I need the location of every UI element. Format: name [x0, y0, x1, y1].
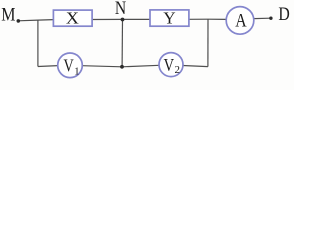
svg-text:A: A	[235, 11, 247, 31]
wire left branch vertical	[37, 20, 39, 66]
svg-text:D: D	[278, 4, 289, 25]
wire bottom junction to V2	[122, 65, 159, 67]
ammeter A	[226, 7, 254, 35]
box Y	[150, 10, 189, 26]
wire node N to Y	[123, 18, 151, 20]
node N junction dot	[121, 18, 125, 22]
node M terminal dot	[17, 19, 21, 23]
svg-text:M: M	[1, 6, 15, 26]
wire right branch vertical	[207, 19, 209, 66]
node D terminal dot	[269, 17, 272, 20]
wire node N vertical to bottom junction	[121, 19, 123, 66]
wire right junction to ammeter	[208, 18, 227, 20]
wire Y to right junction	[189, 18, 208, 20]
wire V2 to right corner	[183, 66, 208, 67]
svg-text:1: 1	[74, 66, 80, 78]
svg-text:V: V	[64, 56, 74, 76]
wire ammeter to D dot	[254, 17, 270, 19]
svg-text:Y: Y	[163, 8, 176, 27]
wire M dot to left junction	[18, 19, 38, 22]
svg-text:X: X	[66, 8, 80, 27]
svg-text:N: N	[115, 0, 126, 19]
wire left branch to V1	[38, 65, 58, 68]
box X	[53, 10, 92, 26]
svg-text:2: 2	[175, 64, 181, 76]
wire left junction to X	[38, 19, 54, 22]
svg-text:V: V	[164, 55, 174, 75]
voltmeter V1	[58, 53, 83, 78]
wire X to node N	[92, 18, 123, 20]
voltmeter V2	[159, 53, 183, 77]
wire V1 to bottom junction	[82, 66, 122, 67]
bottom junction dot	[120, 65, 124, 69]
